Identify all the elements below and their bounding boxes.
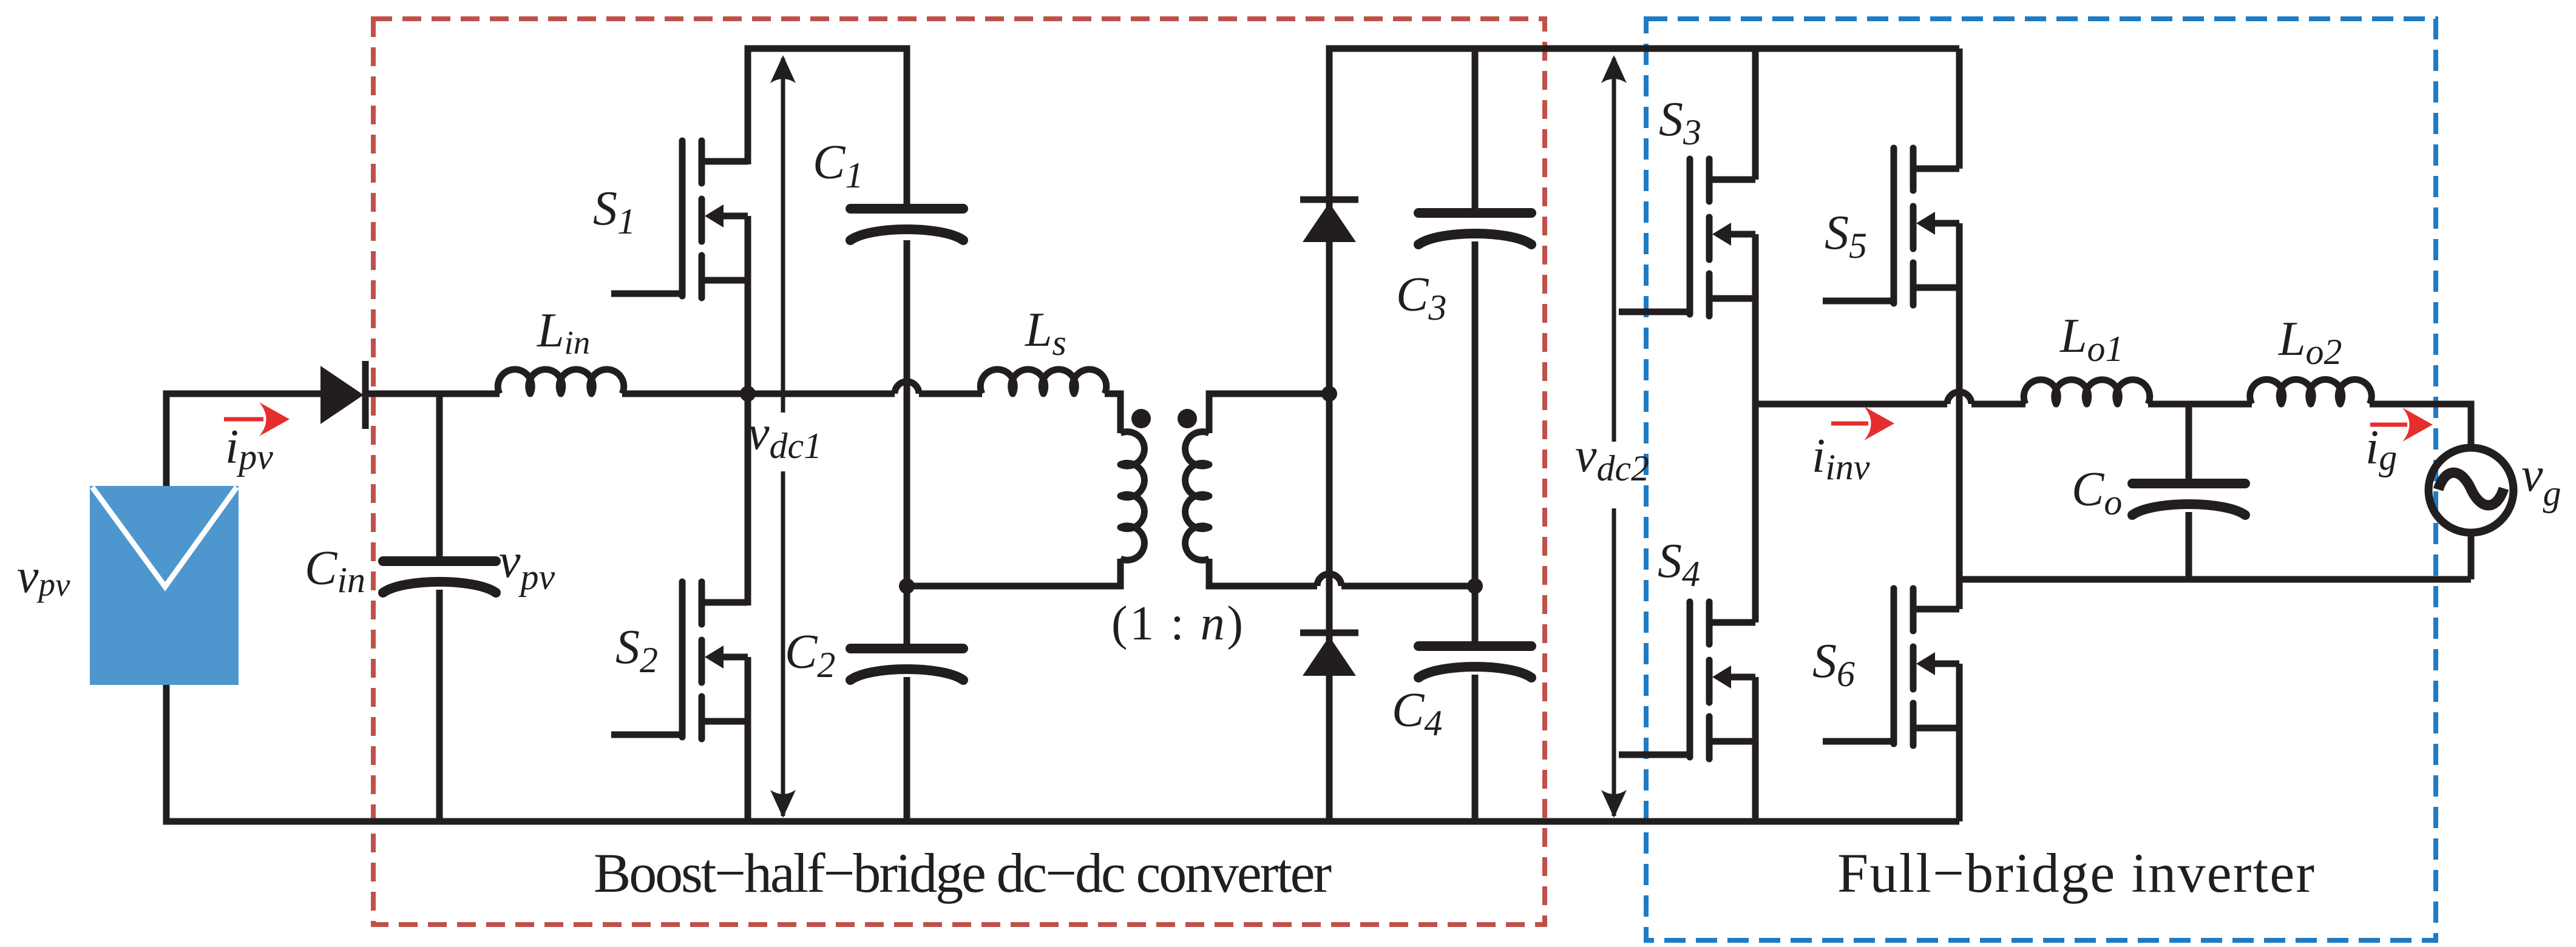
svg-text:Boost−half−bridge dc−dc conver: Boost−half−bridge dc−dc converter <box>594 842 1332 904</box>
capacitor C1 <box>850 209 963 240</box>
boost converter dashed box (red) <box>373 19 1545 925</box>
vdc2 arrow line lower segment <box>1612 508 1616 816</box>
wire hop over C1C2 leg <box>895 382 919 394</box>
S2 lower leg <box>745 657 751 821</box>
inverter dashed box (blue) <box>1646 19 2436 940</box>
svg-text:Full−bridge inverter: Full−bridge inverter <box>1837 842 2314 904</box>
inductor Ls <box>980 369 1106 394</box>
inductor Lin <box>498 369 624 394</box>
transformer primary phase dot <box>1131 409 1151 428</box>
vdc1 arrow line upper segment <box>781 58 785 413</box>
capacitor C3 <box>1418 213 1531 244</box>
wire: Lo2 to vg source <box>2370 404 2471 449</box>
PV panel body <box>90 486 239 685</box>
transformer primary winding <box>1120 432 1144 561</box>
capacitor Cin <box>383 561 496 593</box>
wire: PV top to diode <box>166 394 328 486</box>
vdc2 arrow line upper segment <box>1612 58 1616 442</box>
transistor S4 <box>1619 602 1755 759</box>
wire: primary bottom to C1C2 node <box>907 559 1120 586</box>
C4 lower leg <box>1472 675 1479 821</box>
wire: Lin to hop at C1C2 leg <box>622 391 895 397</box>
Cin leg upper <box>436 394 443 558</box>
wire: hop to Lo1 <box>1971 401 2025 408</box>
transistor S5 <box>1823 148 1959 305</box>
wire: PV bottom to ground rail <box>163 685 170 821</box>
rectifier diode bottom bar <box>1300 630 1358 636</box>
vdc1 arrow line lower segment <box>781 471 785 816</box>
S1 lower leg <box>745 216 751 397</box>
return wire S5S6 midpoint to vg <box>1959 576 2471 583</box>
S6 lower leg <box>1956 664 1963 821</box>
rectifier diode top bar <box>1300 197 1358 203</box>
capacitor C4 <box>1418 646 1531 678</box>
S3/S4 leg upper <box>1752 49 1759 180</box>
inductor Lo1 <box>2024 380 2150 404</box>
Co leg upper <box>2186 404 2192 480</box>
rectifier diode top triangle <box>1303 203 1356 242</box>
wire: hop to Ls <box>919 391 982 397</box>
arrow ipv <box>224 417 263 422</box>
Cin leg lower <box>436 590 443 821</box>
inductor Lo2 <box>2250 380 2372 404</box>
wire hop over diode leg <box>1317 574 1341 586</box>
S5/S6 mid leg <box>1956 223 1963 609</box>
node: C3C4 midpoint / secondary return <box>1467 578 1483 594</box>
capacitor Co <box>2132 484 2245 515</box>
vdc2 arrow line <box>1612 58 1616 816</box>
svg-text:(1 : n): (1 : n) <box>1111 597 1243 650</box>
wire: diode to Lin <box>364 391 500 397</box>
transistor S2 <box>611 582 748 739</box>
diode D triangle <box>320 366 364 424</box>
vdc1 arrow line <box>781 58 785 816</box>
top rail A with S1 and C1 legs <box>748 49 907 206</box>
PV panel chevron <box>92 487 237 587</box>
capacitor C2 <box>850 649 963 680</box>
top rail B with rectifier diode leg <box>1329 49 1959 821</box>
wire: hop to C3C4 node <box>1341 583 1475 590</box>
inverter output wire <box>1755 401 1947 408</box>
wire: secondary top to diode leg node <box>1209 394 1329 433</box>
transistor S6 <box>1823 588 1959 746</box>
C2 lower leg <box>904 677 910 821</box>
node: Lin / S1S2 midpoint <box>740 386 756 402</box>
vg bottom lead <box>2468 531 2475 579</box>
arrow iinv <box>1831 422 1868 426</box>
C1 lower leg to C1C2 node and C2 upper leg <box>904 240 910 645</box>
wire: secondary bottom to hop <box>1209 559 1317 586</box>
transformer secondary phase dot <box>1178 409 1197 428</box>
diode D cathode bar <box>362 361 369 429</box>
arrow ig <box>2370 423 2407 427</box>
S2 upper leg <box>745 391 751 605</box>
vg source circle <box>2429 448 2513 533</box>
node: C1C2 midpoint / primary return <box>899 578 915 594</box>
wire hop over S5S6 leg <box>1947 392 1971 404</box>
node: secondary top / diode junction <box>1321 386 1337 402</box>
wire: Ls to transformer primary <box>1105 394 1120 433</box>
vg sine glyph <box>2438 473 2504 505</box>
S5/S6 leg upper <box>1956 49 1963 169</box>
S3/S4 mid leg <box>1752 234 1759 622</box>
Co leg lower <box>2186 512 2192 579</box>
wire: Lo1 to Co to Lo2 <box>2148 401 2252 408</box>
C3 lower leg to C3C4 node and C4 upper leg <box>1472 241 1479 643</box>
S4 lower leg <box>1752 677 1759 821</box>
rectifier diode bottom triangle <box>1303 636 1356 676</box>
transistor S1 <box>611 141 748 298</box>
C3 upper leg <box>1472 49 1479 209</box>
transformer secondary winding <box>1185 432 1209 561</box>
transistor S3 <box>1619 159 1755 316</box>
bottom rail <box>163 818 1960 825</box>
